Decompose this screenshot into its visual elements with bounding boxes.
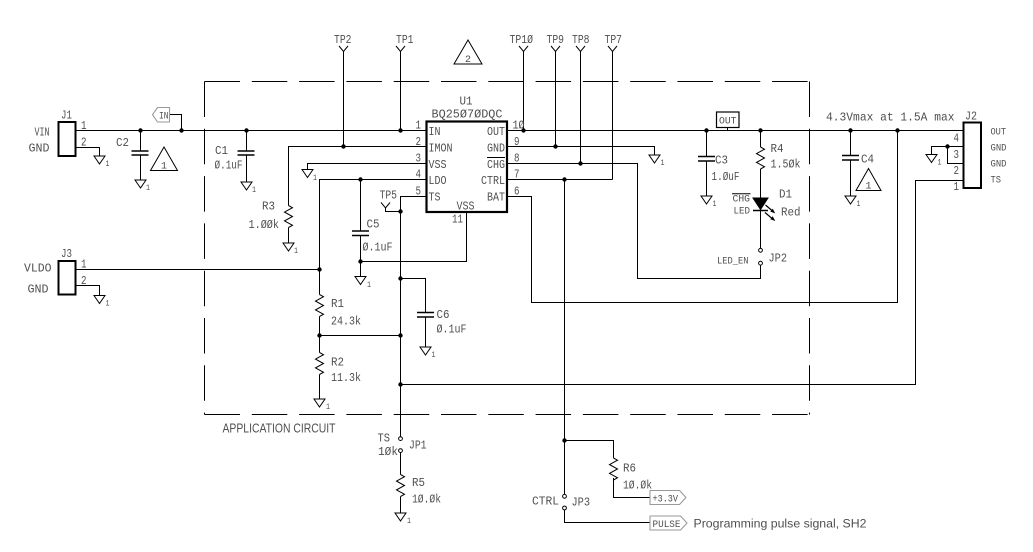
- wire TP7: [612, 51, 614, 180]
- svg-text:R1: R1: [331, 297, 344, 311]
- ground at C4: [845, 196, 861, 209]
- capacitor C6: [417, 308, 467, 337]
- svg-text:C5: C5: [367, 218, 380, 232]
- wire GND pin9 to ground: [507, 147, 655, 156]
- svg-text:GND: GND: [29, 142, 50, 156]
- svg-text:1Ø.Øk: 1Ø.Øk: [623, 479, 652, 493]
- svg-text:GND: GND: [991, 144, 1007, 155]
- svg-text:C2: C2: [116, 136, 129, 150]
- ground at U1 pin9 GND: [649, 155, 665, 168]
- wire R1-R2 junction to TS line: [320, 335, 401, 337]
- resistor R4: [757, 142, 801, 172]
- net flag PULSE: [650, 516, 687, 531]
- svg-text:1: 1: [866, 181, 872, 193]
- svg-text:8: 8: [514, 153, 520, 166]
- svg-text:3: 3: [954, 149, 960, 162]
- wire IMON net (U1.2 to R3): [289, 147, 427, 206]
- svg-text:BQ25Ø7ØDQC: BQ25Ø7ØDQC: [432, 108, 503, 122]
- wire VSS pin3 to ground: [308, 164, 427, 170]
- test point TP10: [510, 33, 534, 52]
- svg-text:TP8: TP8: [572, 33, 590, 47]
- wire R6 branch: [565, 441, 614, 459]
- svg-text:1.ØuF: 1.ØuF: [712, 170, 740, 184]
- svg-text:TP1: TP1: [396, 33, 414, 47]
- wire C6 branch from TS: [401, 279, 426, 313]
- capacitor C3: [698, 154, 740, 185]
- wire R2 top: [319, 336, 321, 353]
- svg-text:OUT: OUT: [719, 117, 737, 128]
- svg-text:TS: TS: [991, 176, 1002, 187]
- svg-text:11: 11: [452, 214, 463, 227]
- ground at R5: [395, 513, 411, 526]
- svg-text:1Øk: 1Øk: [378, 445, 398, 459]
- ground at C2: [135, 180, 150, 193]
- svg-text:IN: IN: [429, 125, 441, 139]
- svg-text:4: 4: [416, 169, 422, 182]
- connector J1: [59, 109, 87, 157]
- connector J2: [954, 110, 1007, 195]
- svg-text:Ø.1uF: Ø.1uF: [215, 159, 243, 173]
- svg-text:GND: GND: [487, 141, 505, 155]
- svg-text:1Ø: 1Ø: [513, 120, 525, 133]
- capacitor C2: [116, 136, 149, 155]
- svg-text:J2: J2: [965, 110, 977, 124]
- wire CHG net (U1.8 down to JP2): [507, 164, 761, 279]
- svg-text:1: 1: [432, 351, 436, 360]
- capacitor C4: [842, 153, 874, 167]
- svg-text:1: 1: [367, 281, 371, 290]
- callout triangle 2: [454, 40, 482, 66]
- svg-text:2: 2: [81, 137, 87, 150]
- svg-text:1: 1: [713, 200, 717, 209]
- wire IN flag stem: [170, 115, 182, 131]
- wire OUT net (U1.10 to J2.4): [507, 130, 964, 132]
- svg-text:Ø.1uF: Ø.1uF: [363, 241, 393, 255]
- wire VSS pin11 down and left to C5 ground node: [361, 212, 467, 262]
- net flag +3.3V: [650, 491, 686, 506]
- resistor R6: [610, 458, 653, 493]
- ground at C1: [241, 182, 256, 195]
- svg-text:1: 1: [294, 247, 298, 256]
- svg-text:LDO: LDO: [429, 174, 447, 188]
- callout triangle 1 near C2: [151, 147, 178, 173]
- jumper JP3: [532, 494, 590, 510]
- wire J2 pin3 tie to pin2 and ground: [932, 147, 964, 164]
- svg-text:C4: C4: [861, 153, 874, 167]
- svg-text:TS: TS: [378, 432, 391, 446]
- net flag OUT: [717, 112, 740, 128]
- ground at U1 pin3 VSS: [302, 170, 317, 184]
- svg-text:VSS: VSS: [457, 200, 475, 214]
- svg-text:C3: C3: [715, 154, 728, 168]
- wire C4 branch: [850, 131, 852, 156]
- svg-text:OUT: OUT: [487, 125, 505, 139]
- svg-text:TP9: TP9: [547, 33, 565, 47]
- svg-text:Ø.1uF: Ø.1uF: [437, 323, 467, 337]
- wire C3 branch: [706, 131, 708, 157]
- wire R6 bottom to +3.3V flag: [614, 478, 651, 498]
- ground at R3: [283, 243, 298, 256]
- wire TP1: [400, 51, 402, 131]
- connector J3: [59, 247, 87, 295]
- svg-text:2: 2: [416, 136, 422, 149]
- svg-text:2: 2: [465, 54, 471, 66]
- resistor R1: [316, 295, 362, 329]
- wire J1 pin2 to ground: [76, 148, 100, 157]
- svg-text:IMON: IMON: [429, 141, 453, 155]
- wire R4 to LED: [760, 169, 762, 198]
- svg-text:TP1Ø: TP1Ø: [510, 33, 534, 47]
- wire VIN net (J1.1 to U1.IN): [76, 130, 427, 132]
- svg-text:TS: TS: [429, 190, 441, 204]
- svg-text:5: 5: [416, 186, 422, 199]
- svg-text:APPLICATION CIRCUIT: APPLICATION CIRCUIT: [223, 421, 336, 436]
- svg-text:1: 1: [161, 161, 167, 173]
- svg-text:1: 1: [252, 186, 256, 195]
- svg-text:6: 6: [514, 186, 520, 199]
- svg-text:TP7: TP7: [605, 33, 623, 47]
- wire TP10: [523, 51, 525, 131]
- wire C4 to ground: [850, 160, 852, 196]
- svg-text:J1: J1: [61, 109, 72, 123]
- svg-text:1: 1: [81, 259, 87, 272]
- resistor R5: [397, 475, 442, 507]
- svg-text:24.3k: 24.3k: [331, 315, 361, 329]
- svg-text:BAT: BAT: [487, 190, 505, 204]
- wire C5 bottom to ground: [360, 236, 362, 277]
- svg-text:CTRL: CTRL: [481, 174, 505, 188]
- svg-text:1: 1: [661, 159, 665, 168]
- svg-text:LED_EN: LED_EN: [717, 257, 749, 268]
- svg-text:1.ØØk: 1.ØØk: [249, 218, 280, 232]
- wire C1 to ground: [246, 155, 248, 182]
- wire R1 top riser: [319, 270, 321, 295]
- svg-text:J3: J3: [61, 247, 72, 261]
- net flag IN: [153, 108, 170, 123]
- svg-text:R3: R3: [262, 200, 275, 214]
- svg-text:1: 1: [416, 120, 422, 133]
- svg-text:1: 1: [146, 184, 150, 193]
- svg-text:TP2: TP2: [334, 33, 352, 47]
- ground at J1 pin2: [94, 156, 110, 169]
- wire R2 to ground: [319, 375, 321, 400]
- wire C5 branch from LDO: [360, 180, 362, 232]
- svg-text:CHG: CHG: [733, 195, 751, 206]
- wire R1 bottom: [319, 317, 321, 336]
- wire C1 branch: [246, 131, 248, 152]
- svg-text:2: 2: [954, 165, 960, 178]
- ground at C6: [420, 347, 436, 360]
- svg-text:C1: C1: [215, 144, 228, 158]
- ground at J2 pin3: [926, 155, 942, 168]
- wire C6 bottom to ground: [425, 317, 427, 347]
- svg-text:1: 1: [326, 403, 330, 412]
- svg-text:PULSE: PULSE: [653, 520, 681, 531]
- svg-text:Red: Red: [781, 206, 801, 220]
- wire R3 to ground: [288, 228, 290, 244]
- wire R5 to ground: [400, 497, 402, 514]
- wire CTRL vertical to JP3: [564, 180, 566, 495]
- svg-text:R5: R5: [412, 476, 425, 490]
- application circuit dashed border: [205, 82, 810, 436]
- test point TP2: [334, 33, 352, 52]
- svg-text:1: 1: [938, 159, 942, 168]
- svg-text:2: 2: [81, 275, 87, 288]
- svg-text:1.5Øk: 1.5Øk: [771, 158, 801, 172]
- svg-text:1: 1: [954, 181, 960, 194]
- wire J3 pin2 to ground: [76, 286, 100, 296]
- svg-text:GND: GND: [991, 160, 1007, 171]
- wire TS net vertical (U1.5 down to JP1): [401, 197, 427, 437]
- svg-text:VIN: VIN: [35, 126, 50, 140]
- resistor R2: [316, 353, 362, 386]
- wire CTRL pin7 to TP7: [507, 179, 613, 181]
- wire TP9: [555, 51, 557, 147]
- svg-text:4.3Vmax at 1.5A max: 4.3Vmax at 1.5A max: [826, 111, 955, 125]
- test point TP9: [547, 33, 565, 52]
- wire TP2: [343, 51, 345, 147]
- svg-text:JP3: JP3: [572, 496, 591, 510]
- wire C2 branch: [140, 131, 142, 152]
- svg-text:TP5: TP5: [380, 189, 398, 203]
- wire C2 to ground: [140, 155, 142, 180]
- test point TP7: [605, 33, 623, 52]
- jumper JP1: [378, 432, 427, 460]
- svg-text:R6: R6: [623, 462, 636, 476]
- svg-text:1: 1: [106, 300, 110, 309]
- wire LED to JP2: [760, 211, 762, 249]
- svg-text:GND: GND: [28, 283, 49, 297]
- capacitor C5: [352, 218, 393, 255]
- ground at C3: [701, 196, 717, 209]
- wire VLDO (J3.1 to LDO riser): [76, 269, 320, 271]
- resistor R3: [249, 200, 293, 233]
- test point TP1: [396, 33, 414, 52]
- svg-text:JP1: JP1: [409, 439, 427, 453]
- svg-text:1: 1: [81, 120, 87, 133]
- svg-text:C6: C6: [437, 308, 450, 322]
- wire OUT flag stem: [727, 128, 729, 131]
- capacitor C1: [215, 144, 255, 173]
- ground at C5: [355, 277, 371, 291]
- svg-text:1: 1: [407, 517, 411, 526]
- jumper JP2: [717, 248, 787, 267]
- LED D1: [732, 188, 801, 222]
- wire C3 to ground: [706, 161, 708, 196]
- svg-text:4: 4: [954, 133, 960, 146]
- svg-text:1: 1: [313, 174, 317, 183]
- svg-text:1: 1: [857, 200, 861, 209]
- svg-text:9: 9: [514, 136, 520, 149]
- svg-text:JP2: JP2: [769, 252, 788, 266]
- svg-text:VLDO: VLDO: [24, 262, 52, 276]
- test point TP5: [380, 189, 398, 209]
- ground at R2: [314, 399, 330, 412]
- svg-text:CHG: CHG: [487, 158, 505, 172]
- svg-text:LED: LED: [734, 207, 751, 218]
- ground at J3 pin2: [94, 296, 110, 309]
- svg-text:VSS: VSS: [429, 158, 447, 172]
- svg-text:1Ø.Øk: 1Ø.Øk: [412, 493, 441, 507]
- wire JP3 to PULSE flag: [565, 510, 651, 523]
- wire JP1 to R5: [400, 453, 402, 475]
- svg-text:7: 7: [514, 169, 520, 182]
- svg-text:11.3k: 11.3k: [331, 371, 361, 385]
- wire R4 branch: [760, 131, 762, 148]
- svg-text:CTRL: CTRL: [532, 495, 559, 509]
- wire TP8: [580, 51, 582, 164]
- svg-text:3: 3: [416, 153, 422, 166]
- callout triangle 1 near C4: [856, 169, 881, 193]
- svg-text:D1: D1: [779, 188, 792, 202]
- test point TP8: [572, 33, 590, 52]
- svg-text:R4: R4: [771, 142, 784, 156]
- svg-text:Programming pulse signal, SH2: Programming pulse signal, SH2: [694, 517, 867, 531]
- wire TP5 stem: [386, 208, 401, 212]
- svg-text:R2: R2: [331, 356, 344, 370]
- wire BAT net (U1.6 around to OUT): [507, 131, 898, 303]
- IC U1 BQ25070DQC: [416, 95, 525, 227]
- svg-text:U1: U1: [460, 95, 473, 109]
- svg-text:+3.3V: +3.3V: [653, 495, 679, 506]
- wire LDO net (U1.4 left and down to J3/R1): [320, 180, 427, 270]
- svg-text:OUT: OUT: [991, 128, 1007, 139]
- svg-text:IN: IN: [159, 112, 169, 123]
- wire TS branch to J2 pin1: [401, 181, 964, 385]
- svg-text:1: 1: [106, 160, 110, 169]
